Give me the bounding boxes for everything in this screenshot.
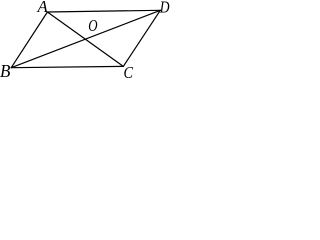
svg-text:C: C — [124, 63, 134, 78]
svg-text:A: A — [37, 0, 49, 16]
svg-text:O: O — [88, 16, 97, 35]
svg-text:B: B — [0, 61, 10, 78]
svg-text:D: D — [159, 0, 170, 16]
